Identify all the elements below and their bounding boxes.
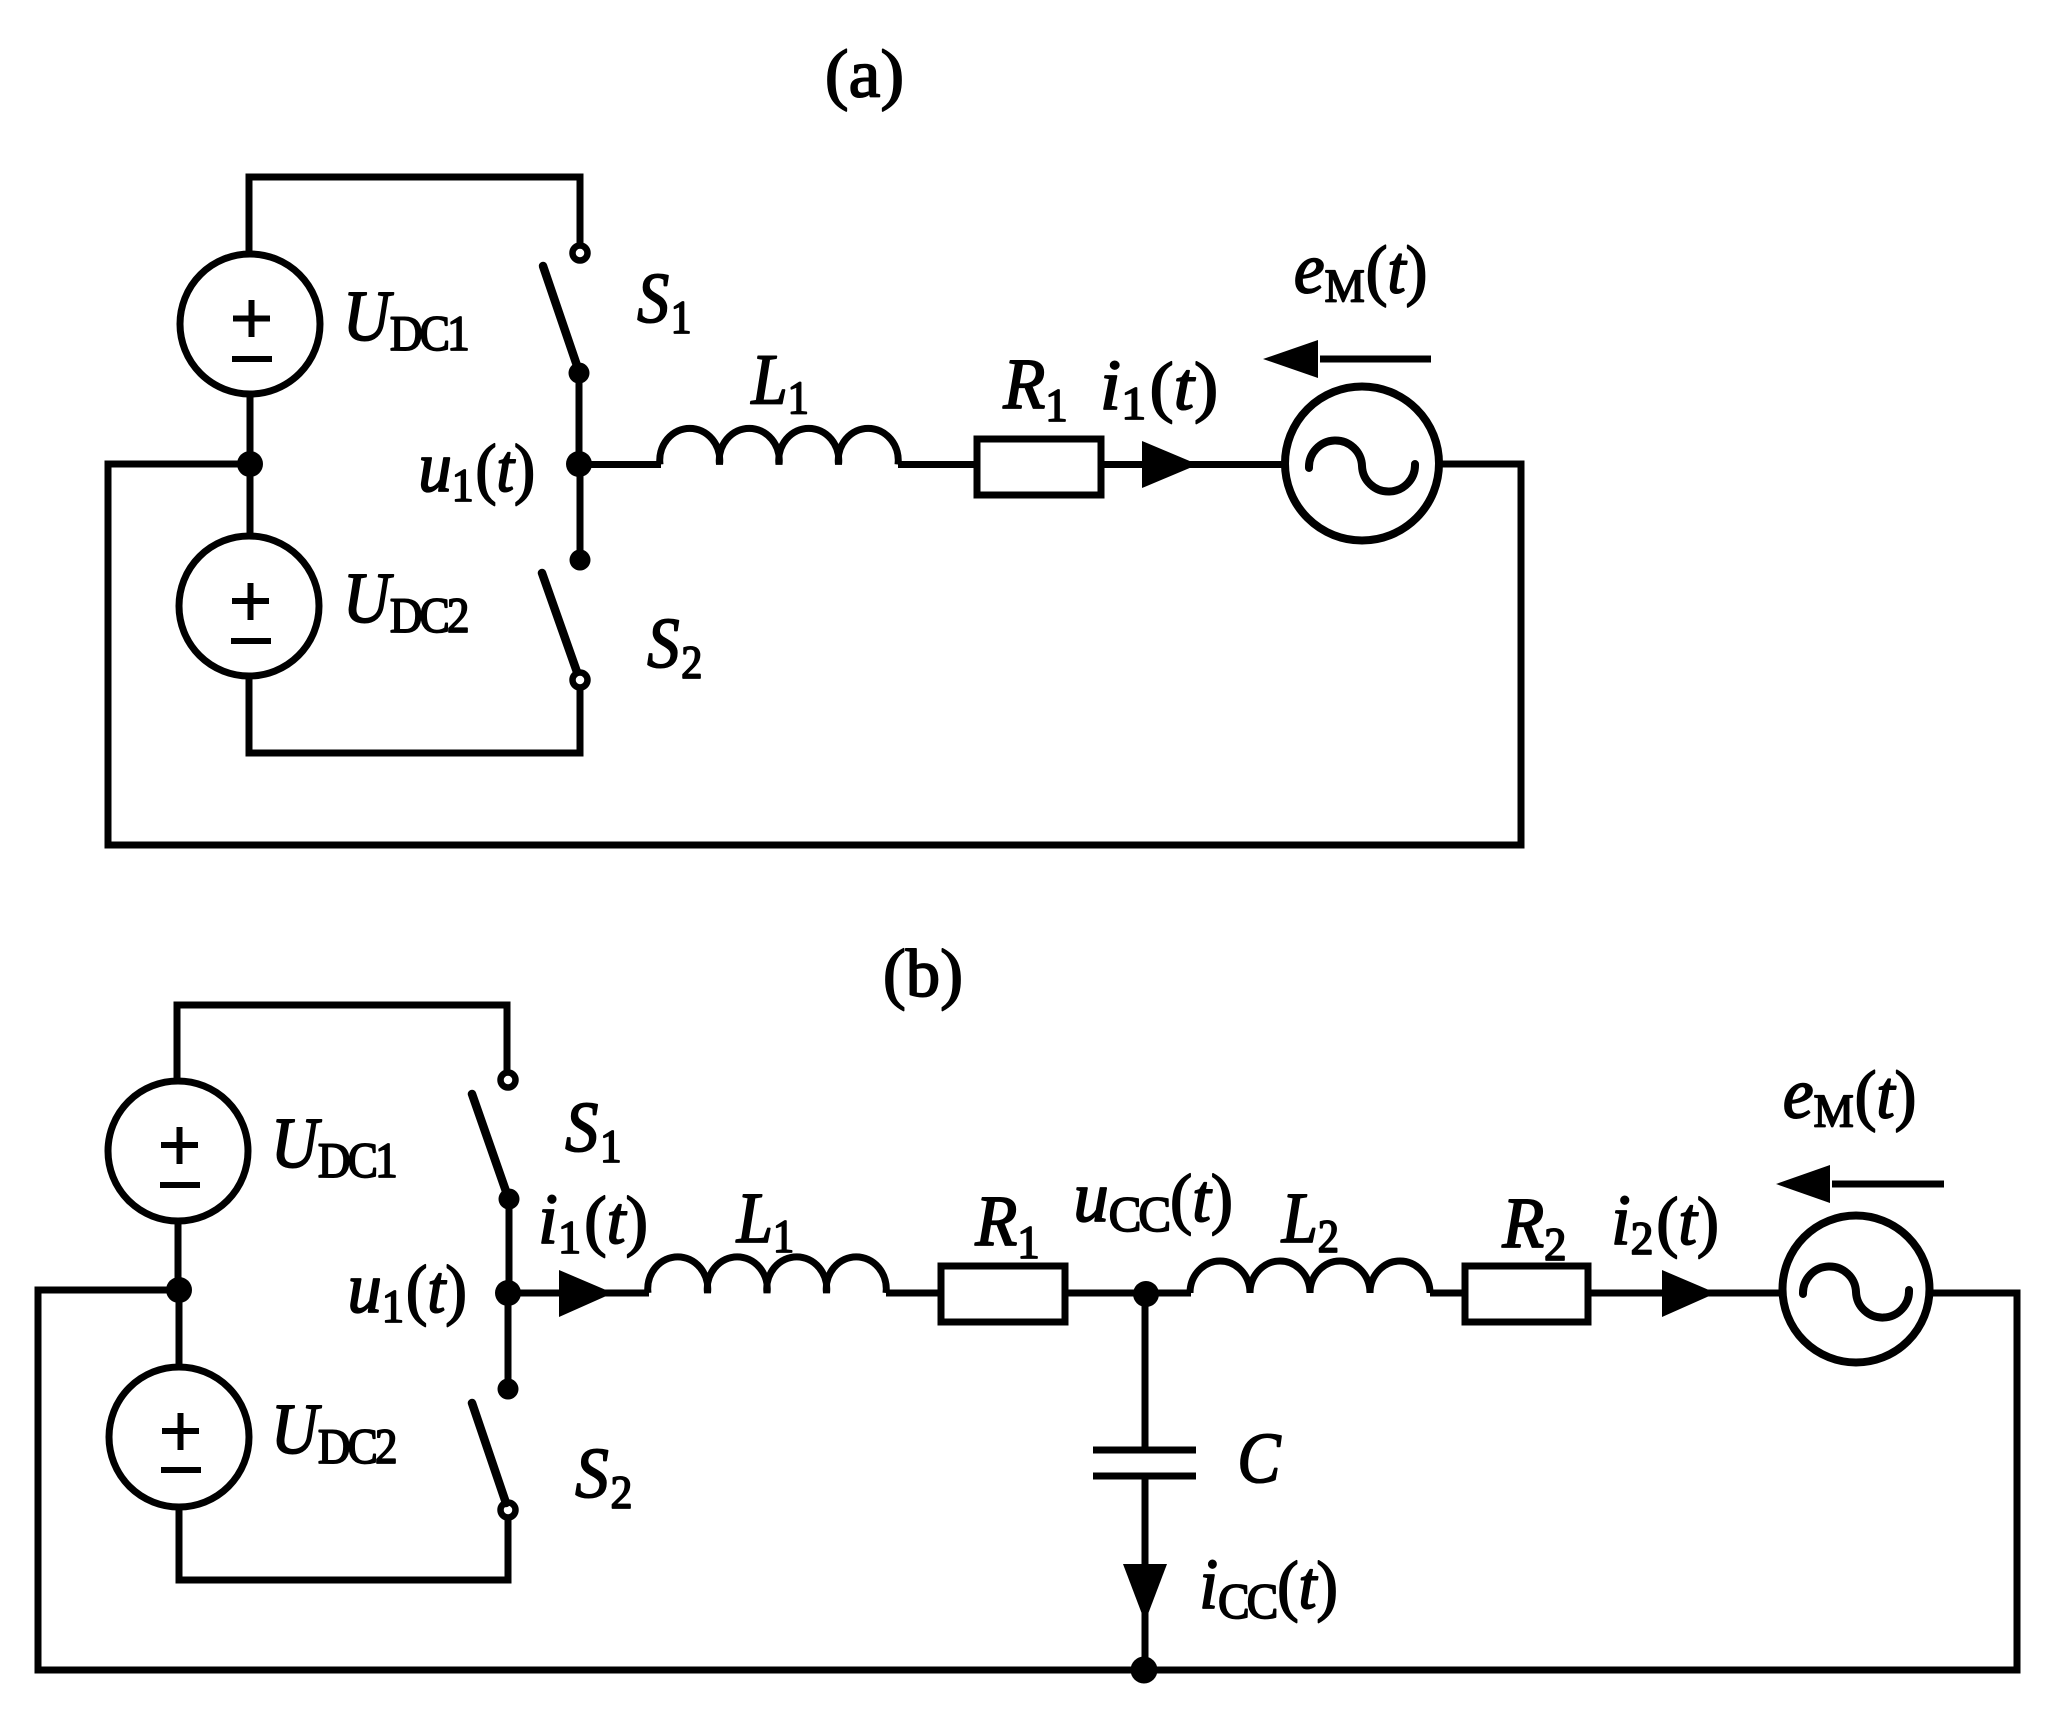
wire node to UDC2 top (b) <box>176 1290 183 1367</box>
switch S2 pivot dot (a) <box>570 550 591 571</box>
wire S2 to node u1 (b) <box>505 1293 512 1389</box>
inductor L1 (a) <box>660 428 899 464</box>
wire L1 to R1 (a) <box>898 461 977 468</box>
wire S1 top from rail (b) <box>504 1002 511 1073</box>
node u1 (b) <box>495 1280 521 1306</box>
label UDC1 (a) <box>349 293 467 351</box>
wire UDC1 bottom to node (b) <box>175 1221 182 1290</box>
wire right rail (a) <box>1518 461 1525 849</box>
switch S2 open contact (b) <box>501 1503 516 1518</box>
resistor R1 (a) <box>977 439 1101 495</box>
wire node uCC down to capacitor (b) <box>1142 1294 1149 1447</box>
wire R1 to source (a) <box>1101 461 1288 468</box>
wire top rail (b) <box>174 1002 511 1009</box>
wire bottom rail (a) <box>105 842 1522 849</box>
switch S1 open contact (a) <box>573 246 588 261</box>
dc source UDC2 (b) <box>109 1367 249 1507</box>
node left junction (a) <box>237 451 263 477</box>
dc source UDC1 (a) <box>180 254 320 394</box>
wire inner bottom rail (b) <box>176 1577 512 1584</box>
dc source UDC1 (b) <box>108 1081 248 1221</box>
label UDC2 (a) <box>349 575 467 633</box>
label i2(t) (b) <box>1615 1196 1716 1258</box>
label R2 (b) <box>1502 1200 1564 1260</box>
ac source eM (b) <box>1783 1216 1930 1363</box>
current arrow i2 (b) <box>1662 1270 1716 1317</box>
wire left stub to node (a) <box>108 461 250 468</box>
wire left drop to UDC1 (b) <box>174 1002 181 1082</box>
wire L1 to R1 (b) <box>886 1290 941 1297</box>
wire node u1 to L1 (b) <box>508 1290 649 1297</box>
label i1(t) (b) <box>542 1195 645 1257</box>
label (a) <box>828 49 901 111</box>
wire inner rail up to S2 (a) <box>577 688 584 757</box>
wire UDC2 bottom to inner rail (a) <box>246 676 253 753</box>
current arrow iCC (b) <box>1123 1564 1167 1622</box>
label UDC2 (b) <box>277 1406 395 1464</box>
label C (b) <box>1241 1434 1281 1482</box>
label S2 (b) <box>576 1449 630 1508</box>
current arrow i1 (a) <box>1142 441 1198 488</box>
wire left drop to UDC1 (a) <box>246 174 253 257</box>
wire S1 pivot to node u1 (a) <box>576 373 583 464</box>
label S1 (b) <box>566 1103 619 1162</box>
emf arrow (a) <box>1263 340 1431 378</box>
wire left stub to node (b) <box>38 1287 179 1294</box>
wire source to right rail (b) <box>1930 1290 2017 1297</box>
label L1 (b) <box>736 1195 792 1252</box>
node bottom junction (b) <box>1131 1657 1158 1684</box>
switch S2 pivot dot (b) <box>498 1379 519 1400</box>
resistor R1 (b) <box>941 1266 1065 1322</box>
switch S2 blade (b) <box>472 1403 506 1503</box>
label eM(t) (a) <box>1296 245 1425 307</box>
node left junction (b) <box>166 1277 192 1303</box>
wire node u1 to L1 (a) <box>579 461 661 468</box>
current arrow i1 (b) <box>559 1270 613 1317</box>
label R1 (a) <box>1003 361 1065 421</box>
label (b) <box>886 949 960 1011</box>
wire S1 pivot to node u1 (b) <box>506 1199 513 1293</box>
label uCC(t) (b) <box>1077 1174 1230 1236</box>
wire S2 to node u1 (a) <box>577 464 584 560</box>
node uCC (b) <box>1133 1281 1159 1307</box>
node u1 (a) <box>566 451 592 477</box>
wire R1 to node uCC (b) <box>1065 1290 1191 1297</box>
label S1 (a) <box>638 274 689 333</box>
switch S1 open contact (b) <box>501 1073 516 1088</box>
wire left rail (b) <box>35 1287 42 1674</box>
emf arrow (b) <box>1776 1165 1944 1203</box>
wire S1 top from rail (a) <box>577 174 584 246</box>
switch S1 pivot dot (b) <box>499 1189 520 1210</box>
wire inner rail up to S2 (b) <box>505 1519 512 1584</box>
inductor L1 (b) <box>648 1257 887 1293</box>
label S2 (a) <box>648 619 700 678</box>
switch S1 blade (b) <box>472 1094 508 1197</box>
switch S1 blade (a) <box>543 266 579 370</box>
label u1(t) (a) <box>422 444 533 506</box>
wire UDC2 bottom to inner rail (b) <box>176 1507 183 1584</box>
wire inner bottom rail (a) <box>246 750 584 757</box>
label UDC1 (b) <box>277 1120 395 1178</box>
wire L2 to R2 (b) <box>1430 1290 1465 1297</box>
label u1(t) (b) <box>351 1265 464 1327</box>
capacitor C (b) <box>1093 1450 1196 1476</box>
label L1 (a) <box>751 356 807 413</box>
resistor R2 (b) <box>1465 1266 1588 1322</box>
switch S2 blade (a) <box>542 573 577 672</box>
wire node to UDC2 top (a) <box>247 464 254 536</box>
switch S1 pivot dot (a) <box>569 363 590 384</box>
label iCC(t) (b) <box>1203 1560 1335 1622</box>
wire UDC1 bottom to node (a) <box>247 394 254 464</box>
label i1(t) (a) <box>1104 361 1215 423</box>
wire top rail (a) <box>246 174 584 181</box>
wire source to right rail (a) <box>1436 461 1521 468</box>
label R1 (b) <box>975 1198 1037 1258</box>
inductor L2 (b) <box>1190 1261 1430 1293</box>
wire R2 to source (b) <box>1588 1290 1783 1297</box>
wire left rail (a) <box>105 461 112 849</box>
dc source UDC2 (a) <box>179 536 319 676</box>
wire right rail (b) <box>2014 1290 2021 1674</box>
switch S2 open contact (a) <box>573 673 588 688</box>
wire bottom rail (b) <box>35 1667 2021 1674</box>
label eM(t) (b) <box>1785 1070 1914 1132</box>
label L2 (b) <box>1281 1195 1337 1252</box>
wire capacitor to bottom node (b) <box>1142 1480 1149 1671</box>
ac source eM (a) <box>1285 387 1439 541</box>
